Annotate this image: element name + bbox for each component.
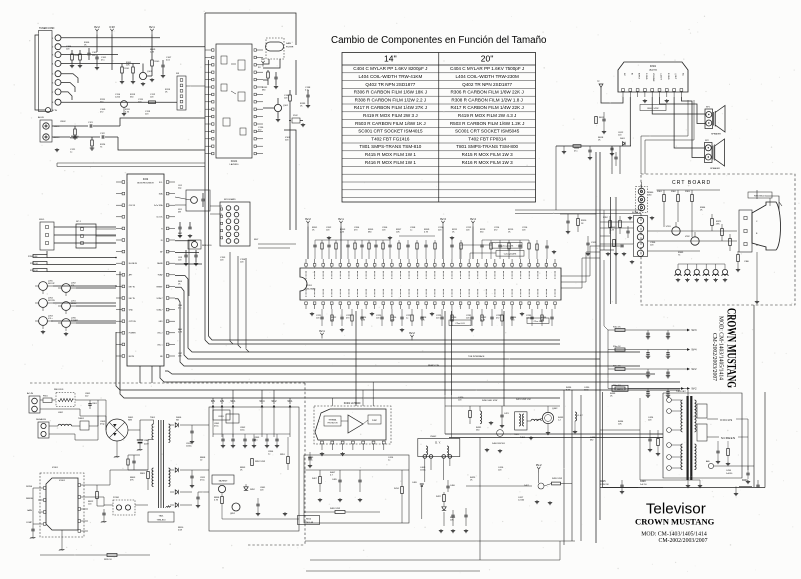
resistor R2xx below jungle (351, 315, 353, 321)
svg-text:18K: 18K (716, 224, 720, 226)
capacitor C2xx above jungle (388, 244, 391, 246)
ground C131 (275, 85, 277, 87)
svg-text:C404 C MYLAR PP 1.6KV 7500pF J: C404 C MYLAR PP 1.6KV 7500pF J (450, 66, 524, 71)
keypad button (226, 239, 231, 244)
svg-text:472: 472 (496, 318, 500, 320)
svg-text:C406: C406 (450, 485, 456, 487)
svg-text:KEY/DN: KEY/DN (48, 300, 55, 302)
resistor R373 mid (729, 239, 732, 246)
svg-text:R705 1K: R705 1K (30, 263, 38, 265)
capacitor C427 bottom (620, 484, 623, 486)
wire bus lower 6 (116, 332, 680, 390)
svg-text:OSC 1: OSC 1 (157, 344, 162, 346)
rail 9V-2 secondary (273, 405, 276, 408)
ground C861 (257, 512, 259, 514)
resistor R601 boxed label (640, 105, 666, 111)
svg-text:AFT: AFT (129, 274, 133, 277)
ground ladder b0 (667, 335, 669, 337)
svg-text:47u: 47u (574, 151, 577, 153)
svg-text:R361: R361 (657, 191, 663, 193)
ground secondary right (284, 512, 286, 514)
IC201 bottom pin 9 (373, 302, 376, 305)
svg-text:103: 103 (522, 230, 526, 232)
wire fbt outer bottom (603, 487, 766, 489)
svg-text:AC-IN: AC-IN (27, 392, 33, 395)
IC02 left pin 2 (122, 192, 125, 195)
capacitor C615 below audio (614, 156, 617, 158)
audio out wire C (674, 97, 704, 148)
svg-text:1u: 1u (406, 318, 408, 320)
rail 9V-4 secondary (261, 405, 264, 408)
wire ic801 bottom (61, 530, 63, 548)
svg-text:R703 1K: R703 1K (30, 270, 38, 272)
keypad button (226, 206, 231, 211)
svg-text:10K: 10K (126, 65, 130, 67)
IC101 left pin 8 (212, 101, 214, 103)
resistor R805 snubber (127, 459, 129, 465)
rail arrow 9V-3 (687, 329, 690, 332)
capacitor C850 secondary (221, 438, 224, 440)
svg-text:9V-2: 9V-2 (272, 400, 278, 403)
IC101 right pin 27 (254, 130, 256, 132)
capacitor C812 (196, 496, 199, 498)
svg-text:R803: R803 (140, 473, 146, 475)
wire tuner pin6 (61, 83, 75, 93)
svg-text:R417 R CARBON FILM 1/4W 27K J: R417 R CARBON FILM 1/4W 27K J (354, 105, 427, 110)
resistor R393 ladder (615, 387, 625, 390)
ground C852 sec (244, 444, 246, 446)
diode D809 (175, 503, 178, 507)
wire bottom fbt rail (600, 487, 638, 489)
svg-text:2.2K: 2.2K (340, 232, 345, 234)
wire crt feed vertical b (615, 197, 617, 304)
IC201 bottom pin 29 (545, 302, 548, 305)
keypad pin (221, 215, 223, 217)
capacitor C101 (95, 56, 98, 58)
IC201 top pin 32 (313, 264, 316, 267)
svg-text:103: 103 (466, 230, 470, 232)
connector keypad box (220, 202, 250, 246)
resistor R352 left of socket (609, 221, 612, 228)
svg-text:CROWN MUSTANG: CROWN MUSTANG (725, 308, 740, 388)
svg-text:100u: 100u (240, 430, 244, 432)
svg-text:TB1238AN: TB1238AN (306, 287, 316, 290)
ground IC601 pin7 (666, 99, 668, 101)
transistor V202 (691, 237, 699, 245)
capacitor C06 mcu right (178, 226, 181, 228)
resistor R230 top right of jungle (536, 244, 538, 250)
wire spark top (641, 182, 643, 188)
svg-text:9V-4: 9V-4 (692, 349, 698, 352)
svg-text:10K: 10K (178, 236, 182, 238)
svg-text:9V-2: 9V-2 (692, 368, 698, 371)
thermistor TH801 (80, 421, 89, 430)
svg-text:THERMAL: THERMAL (328, 418, 336, 421)
wire vertical net top (304, 469, 409, 471)
capacitor C2xx above jungle (406, 244, 409, 246)
svg-text:LA42352: LA42352 (649, 68, 658, 71)
IC601 pin 4 (644, 89, 647, 92)
IC201 bottom pin 24 (502, 302, 505, 305)
wire crt bottom rail (600, 487, 663, 489)
wire ic801 left loop (33, 488, 38, 524)
IC201 top pin 44 (416, 264, 419, 267)
svg-text:IC801: IC801 (52, 467, 59, 469)
diode D808 (175, 490, 178, 494)
svg-text:X102: X102 (293, 115, 299, 117)
secondary rails box (209, 407, 299, 531)
svg-text:NB: NB (160, 356, 163, 358)
svg-text:103: 103 (498, 470, 502, 472)
ground C811 (191, 484, 193, 486)
svg-text:RESET: RESET (157, 286, 164, 288)
resistor R2xx above jungle (354, 243, 356, 249)
ground R101 (121, 80, 123, 82)
IC101 internal block VIF (221, 56, 227, 64)
keypad button (234, 219, 239, 224)
capacitor C107 (161, 64, 164, 66)
wire crt red line (648, 230, 738, 232)
wire tuner pin4 (61, 63, 140, 65)
ground damper2 (499, 449, 501, 451)
svg-text:R503 R CARBON FILM 1/6W 1.2K J: R503 R CARBON FILM 1/6W 1.2K J (450, 121, 525, 126)
IC801 right pin 6 (78, 496, 81, 499)
svg-text:FILTER: FILTER (286, 47, 294, 49)
wire secondary bottom2 (222, 510, 236, 519)
IC401 pin 1 (321, 441, 324, 444)
CRT socket pin 5 (637, 250, 643, 256)
IC201 top pin 59 (545, 264, 548, 267)
resistor R2xx below jungle (481, 315, 483, 321)
svg-text:D852: D852 (250, 489, 256, 491)
svg-text:9V-1: 9V-1 (319, 329, 325, 333)
svg-text:S-TAL7: S-TAL7 (157, 297, 163, 300)
wire fbt outer right (764, 392, 766, 488)
wire TP to pin2 (601, 87, 623, 103)
svg-text:KEY/UP: KEY/UP (48, 283, 55, 285)
IC201 bottom pin 23 (494, 302, 497, 305)
resistor R422 (443, 495, 446, 502)
transistor Q102 video amp (274, 104, 281, 111)
keypad button (234, 239, 239, 244)
svg-text:S GND: S GND (645, 73, 647, 80)
svg-text:MICROPROCESSOR: MICROPROCESSOR (137, 183, 154, 185)
wire B+ to FBT (628, 388, 680, 390)
svg-text:103: 103 (648, 420, 652, 422)
svg-text:LA76810: LA76810 (230, 163, 240, 166)
wire mcu left stubs (115, 226, 117, 228)
svg-text:MOD: CM-1403/1405/1414: MOD: CM-1403/1405/1414 (718, 316, 724, 380)
svg-text:IC02: IC02 (143, 177, 149, 181)
IC02 left pin 8 (122, 262, 125, 265)
svg-text:OSC 2: OSC 2 (157, 333, 162, 335)
wire bundle drop c (246, 258, 249, 352)
capacitor C393 ladder a (646, 391, 649, 393)
svg-text:1: 1 (52, 38, 54, 40)
svg-text:DEGAUSS: DEGAUSS (36, 418, 46, 421)
capacitor C2xx above jungle (374, 244, 377, 246)
wire ladder left vertical (607, 330, 609, 389)
IC02 left pin 14 (122, 332, 125, 335)
keypad button (234, 212, 239, 217)
ground C616 (603, 130, 605, 132)
svg-text:KEY IN: KEY IN (129, 298, 136, 300)
svg-text:470u: 470u (200, 480, 204, 482)
wire socket left rows (600, 221, 634, 223)
capacitor C2xx below jungle (360, 316, 363, 318)
ground dy 1 (440, 529, 442, 531)
ground D407 (536, 500, 538, 502)
svg-text:3.3V: 3.3V (109, 25, 115, 29)
svg-text:103: 103 (326, 230, 330, 232)
svg-text:R815 1K: R815 1K (104, 559, 112, 561)
svg-text:103: 103 (240, 262, 244, 264)
svg-text:R810: R810 (306, 519, 312, 521)
svg-text:1K: 1K (331, 320, 334, 322)
svg-text:R306 R CARBON FILM 1/6W 22K J: R306 R CARBON FILM 1/6W 22K J (450, 90, 523, 95)
IC201 top pin 55 (511, 264, 514, 267)
node TP601 (599, 84, 603, 87)
svg-text:C122: C122 (100, 133, 106, 135)
wire trunk pair x205 (204, 47, 206, 340)
wire bottom long 2 extend (310, 559, 395, 561)
svg-text:1/2W 1W: 1/2W 1W (600, 484, 609, 486)
svg-text:(+)OUT: (+)OUT (660, 73, 662, 81)
svg-text:CN02: CN02 (60, 121, 66, 123)
svg-text:SCL: SCL (159, 182, 163, 184)
wire bundle mcu to jungle 1 (175, 276, 640, 352)
svg-text:1u: 1u (410, 230, 412, 232)
svg-text:MOD: CM-1403/1405/1414: MOD: CM-1403/1405/1414 (641, 532, 707, 538)
IC201 bottom pin 28 (537, 302, 540, 305)
capacitor C2xx below jungle (420, 316, 423, 318)
ferrite bead FB6 (722, 269, 727, 274)
diode D807 (175, 468, 178, 472)
connector AV-IN jacks (40, 120, 52, 142)
keypad button (226, 219, 231, 224)
wire fbt box outline (640, 398, 662, 480)
connector CN101 pin 3 (55, 52, 61, 58)
ground audio return 1 (563, 150, 565, 152)
wire audio down right a (641, 100, 688, 174)
IC401 internal wires (341, 420, 348, 422)
wire trunk x600 (599, 152, 601, 520)
svg-text:TUB INTERFACE: TUB INTERFACE (468, 355, 485, 358)
ground Q102 (277, 118, 279, 120)
capacitor C423 (648, 438, 651, 440)
svg-text:R416 R MOX FILM 1W 3: R416 R MOX FILM 1W 3 (462, 160, 513, 165)
speaker SP1 cone (713, 112, 715, 126)
fuse F801 (43, 398, 52, 402)
svg-text:G: G (756, 245, 758, 247)
wire jungle to crt B (561, 258, 600, 288)
ground IC401 pin1 (321, 452, 323, 454)
ground damper1 (486, 448, 488, 450)
ground hot bridge2 (116, 455, 118, 457)
ground C427 (621, 490, 623, 492)
svg-text:473: 473 (354, 230, 358, 232)
ground ladder b1 (667, 355, 669, 357)
IC801 left pin 3 (43, 511, 46, 514)
capacitor C390 ladder b (666, 332, 669, 334)
svg-text:T402 FBT FG1416: T402 FBT FG1416 (371, 136, 410, 141)
IC02 right pin 26 (166, 250, 169, 253)
capacitor C230 (545, 245, 548, 247)
capacitor C810 (190, 430, 193, 432)
svg-text:4M: 4M (178, 212, 181, 214)
IC02 left pin 6 (122, 239, 125, 242)
svg-text:R415 R MOX FILM 1W 3: R415 R MOX FILM 1W 3 (462, 152, 513, 157)
svg-text:1K: 1K (240, 470, 243, 472)
capacitor C05 (201, 198, 204, 200)
svg-text:473: 473 (346, 318, 350, 320)
svg-text:75: 75 (100, 147, 103, 149)
capacitor C392 ladder a (646, 371, 649, 373)
svg-text:PROTECTOR: PROTECTOR (328, 422, 339, 424)
ground Q402 (547, 431, 549, 433)
rail 9V-3 above jungle (442, 223, 444, 226)
svg-text:R390 680-1/2: R390 680-1/2 (754, 196, 767, 198)
connector AC input (29, 396, 40, 413)
IC02 left pin 3 (122, 204, 125, 207)
svg-text:682: 682 (590, 440, 594, 442)
IC02 left pin 5 (122, 227, 125, 230)
svg-text:GAIN: GAIN (27, 509, 32, 512)
svg-text:22p: 22p (178, 188, 182, 190)
diode D02 reset box (186, 190, 210, 211)
svg-text:1K: 1K (470, 480, 473, 482)
svg-text:CLOCK: CLOCK (156, 217, 163, 219)
svg-text:1K: 1K (598, 140, 601, 142)
svg-text:AF: AF (160, 251, 163, 254)
svg-text:8: 8 (52, 102, 54, 104)
resistor R354 (613, 240, 616, 247)
wire bridge minus (116, 441, 118, 455)
IC201 top pin 45 (425, 264, 428, 267)
connector CRT base (739, 210, 752, 252)
transformer T402 primary (681, 400, 683, 432)
wire bus lower 7 (120, 272, 560, 399)
IC02 right pin 17 (166, 355, 169, 358)
svg-text:IC201: IC201 (306, 285, 313, 287)
IC201 bottom pin 7 (356, 302, 359, 305)
svg-text:REMOCON: REMOCON (202, 245, 212, 247)
svg-text:20'': 20'' (481, 54, 494, 64)
ground FB5 (715, 278, 717, 280)
svg-text:6: 6 (52, 83, 54, 85)
svg-text:4.7K: 4.7K (424, 232, 429, 234)
svg-text:470u: 470u (214, 426, 218, 428)
ground crt heater (756, 300, 758, 302)
resistor R391 ladder (615, 348, 625, 351)
resistor R390 ladder (615, 329, 625, 332)
wire bundle mcu to jungle 3 (175, 299, 640, 366)
wire jungle pin to yoke a (444, 311, 446, 395)
svg-text:9V-2: 9V-2 (305, 217, 311, 221)
IC401 thermal block (324, 416, 341, 426)
capacitor C2xx below jungle (510, 316, 513, 318)
svg-text:R852 1/2W: R852 1/2W (255, 461, 265, 463)
ground below jungle (521, 312, 523, 314)
ground C850 sec (222, 444, 224, 446)
capacitor C391 ladder a (646, 352, 649, 354)
transformer T402 secondary (695, 400, 697, 432)
rail arrow 9V-2 (687, 368, 690, 371)
svg-text:1K: 1K (178, 284, 181, 286)
wire bottom rail long (305, 540, 575, 542)
regulator KA78R09 box (212, 475, 234, 484)
resistor R426 (552, 482, 561, 485)
svg-text:75: 75 (678, 255, 681, 257)
svg-text:1K: 1K (508, 232, 511, 234)
keypad pin (221, 237, 223, 239)
IC101 right pin 25 (254, 115, 256, 117)
diode D601 on audio return (623, 142, 626, 146)
IC201 bottom pin 19 (459, 302, 462, 305)
svg-text:R426 1/2W: R426 1/2W (552, 478, 562, 480)
IC02 left pin 12 (122, 308, 125, 311)
IC401 pin 5 (362, 441, 365, 444)
rail 9V-1 top-left (151, 31, 153, 34)
svg-text:R363: R363 (685, 191, 691, 193)
ferrite bead FB4 (704, 269, 709, 274)
IC02 right pin 28 (166, 227, 169, 230)
resistor R101 vertical (121, 67, 124, 73)
svg-text:2.2K: 2.2K (361, 320, 366, 322)
resistor R104 (71, 54, 74, 60)
keypad button (226, 232, 231, 237)
ground C134 (307, 104, 309, 106)
svg-text:IC101: IC101 (231, 160, 238, 163)
svg-text:10K: 10K (618, 424, 622, 426)
rail 3.3V top-left (111, 31, 113, 34)
wire screen right (738, 436, 748, 438)
resistor R428 (727, 449, 730, 456)
diode bridge D801 (106, 419, 128, 441)
svg-text:R415 R MOX FILM 1W 1: R415 R MOX FILM 1W 1 (365, 152, 416, 157)
svg-text:2.2K: 2.2K (150, 52, 155, 54)
svg-text:POWER: POWER (129, 333, 136, 335)
IC02 right pin 29 (166, 216, 169, 219)
wire tuner pin7 (61, 92, 72, 100)
diode D806 (175, 423, 178, 427)
wire rgb ladder row 3 (608, 368, 688, 370)
transistor Q703 (39, 317, 48, 326)
svg-text:SP2: SP2 (705, 140, 710, 142)
wire tuner pin1 (61, 37, 160, 39)
svg-text:1u/160: 1u/160 (518, 500, 525, 502)
resistor R133 (289, 95, 292, 101)
svg-text:Q852: Q852 (230, 513, 236, 515)
capacitor C711 (194, 254, 197, 256)
svg-text:RBV: RBV (128, 420, 133, 422)
wire screen right down (747, 419, 749, 470)
IC101 internal wire (231, 63, 236, 65)
svg-text:9V-1: 9V-1 (288, 400, 294, 403)
wire fbt enclosure (663, 393, 742, 478)
SAW filter X101 dashed box (266, 38, 284, 59)
capacitor C409 dy (420, 483, 424, 485)
capacitor C390 ladder a (646, 332, 649, 334)
wire keypad to jungle a (258, 243, 296, 245)
IC201 bottom pin 27 (528, 302, 531, 305)
svg-text:R109: R109 (155, 61, 161, 63)
connector CN101 pin 8 (55, 99, 61, 105)
capacitor C352 (626, 230, 629, 232)
svg-text:5: 5 (52, 74, 54, 76)
resistor R2xx above jungle (321, 243, 323, 249)
node HV wire (779, 202, 782, 206)
